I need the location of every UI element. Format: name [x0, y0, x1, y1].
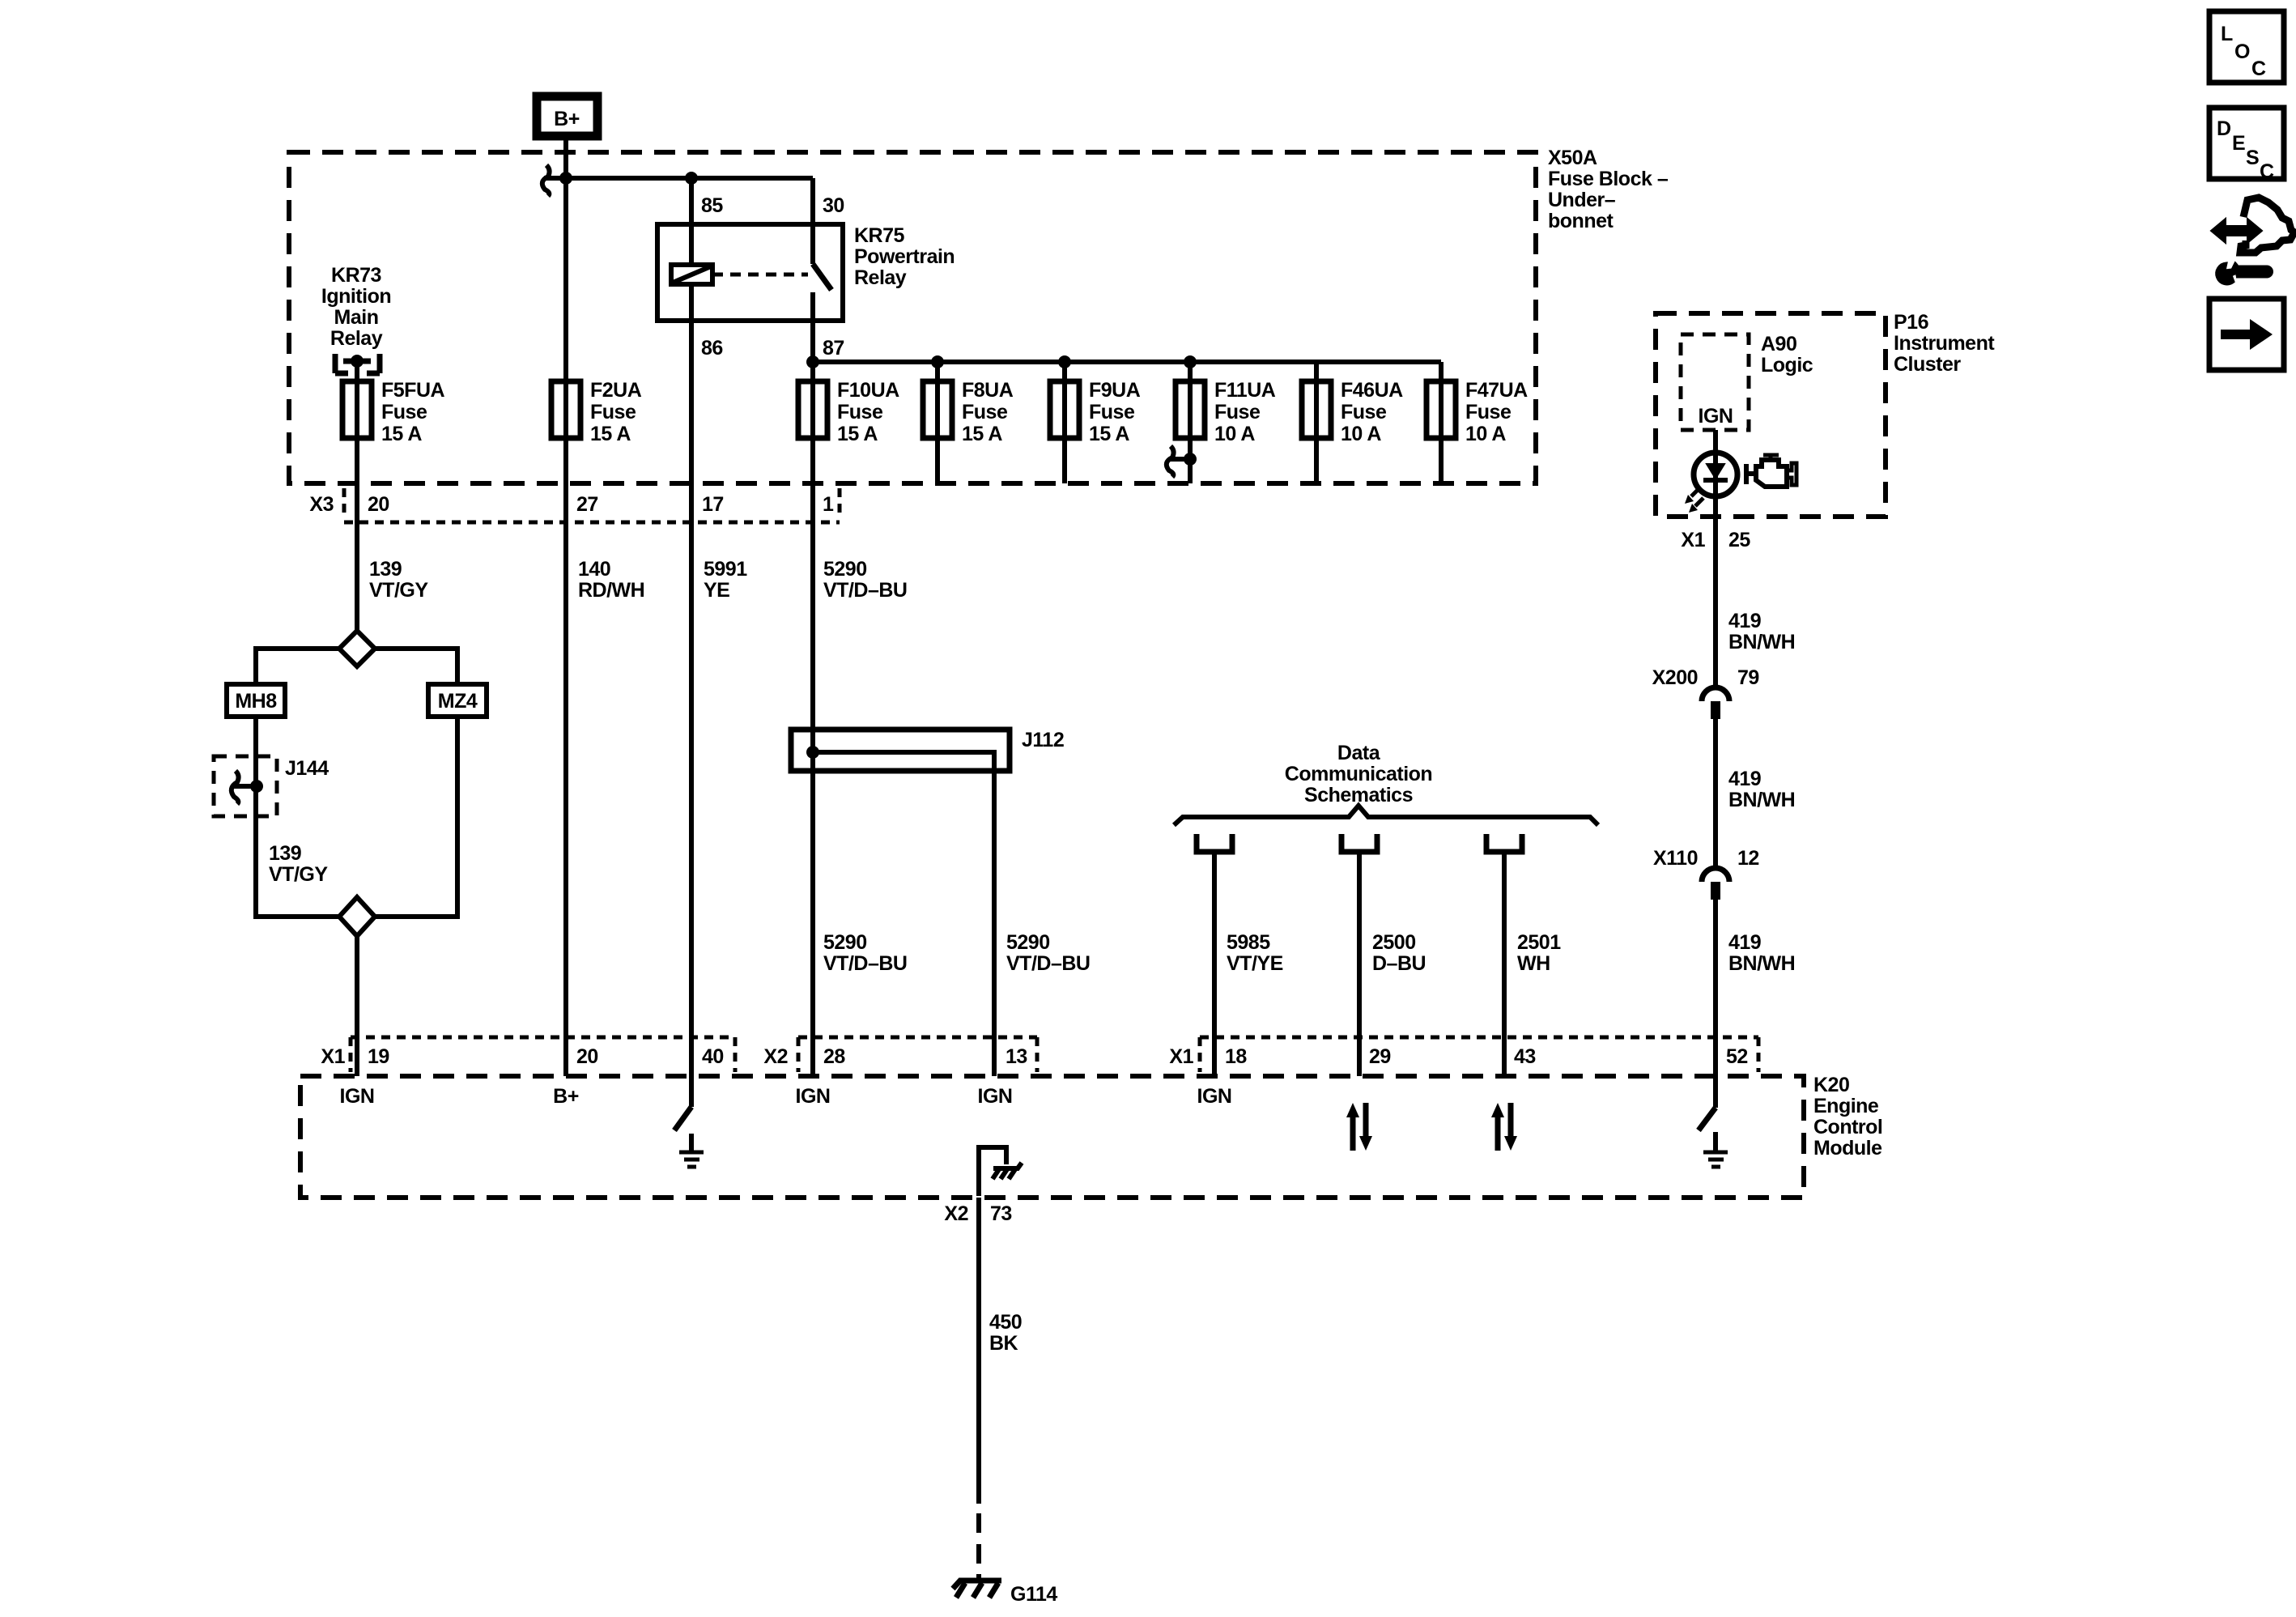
junction node bus at F8UA: [931, 355, 944, 368]
wire KR73 to fuse F5FUA (139 trunk): [355, 361, 359, 631]
svg-text:29: 29: [1369, 1045, 1391, 1068]
junction node bus at F11UA: [1184, 355, 1197, 368]
KR75 pin 30 wire: [810, 178, 815, 264]
fuse F46UA: [1302, 381, 1331, 438]
connector MZ4: [428, 684, 487, 717]
svg-text:Relay: Relay: [330, 327, 383, 350]
label 419 BN/WH (1): [1728, 610, 1795, 653]
svg-text:X110: X110: [1653, 847, 1698, 870]
svg-text:Fuse: Fuse: [381, 401, 427, 423]
svg-text:139: 139: [269, 842, 301, 865]
junction node at relay pin 85 branch: [685, 172, 698, 185]
svg-text:YE: YE: [704, 579, 729, 602]
svg-text:Fuse Block –: Fuse Block –: [1548, 168, 1669, 190]
wire diamond to ECM pin 19: [355, 936, 359, 1076]
svg-text:WH: WH: [1517, 952, 1550, 975]
fuse F5FUA: [342, 381, 372, 438]
splice J144 dashed box: [214, 756, 277, 816]
svg-text:15 A: 15 A: [1089, 423, 1129, 445]
label 419 BN/WH (3): [1728, 931, 1795, 975]
svg-text:BK: BK: [989, 1332, 1018, 1355]
data arrows at pin 29: [1346, 1103, 1372, 1151]
wire 2501 WH: [1502, 852, 1507, 1076]
svg-text:S: S: [2246, 147, 2259, 169]
wire diamond to MZ4: [375, 649, 457, 684]
junction block J112: [791, 730, 1010, 771]
svg-text:C: C: [2251, 57, 2266, 80]
svg-text:X2: X2: [944, 1202, 968, 1225]
fuse F9UA: [1050, 381, 1079, 438]
icon vehicle with wrench: [2211, 198, 2294, 284]
fuse F8UA: [923, 381, 952, 438]
svg-text:2501: 2501: [1517, 931, 1561, 954]
svg-text:J112: J112: [1022, 729, 1064, 751]
KR73 contact cup symbol: [335, 354, 380, 373]
svg-text:MH8: MH8: [235, 690, 277, 713]
svg-text:IGN: IGN: [796, 1085, 831, 1108]
wire F46UA drop: [1314, 362, 1319, 483]
instrument cluster P16 dashed box: [1656, 313, 1886, 517]
svg-text:5985: 5985: [1227, 931, 1270, 954]
label Data Communication Schematics: [1285, 742, 1432, 806]
svg-text:RD/WH: RD/WH: [578, 579, 644, 602]
svg-text:O: O: [2234, 40, 2250, 63]
ground symbol at pin 52: [1703, 1132, 1728, 1167]
svg-text:Fuse: Fuse: [1214, 401, 1261, 423]
ground symbol at pin 40: [679, 1134, 704, 1167]
svg-text:MZ4: MZ4: [438, 690, 478, 713]
svg-text:79: 79: [1737, 666, 1759, 689]
svg-text:5290: 5290: [823, 558, 867, 581]
svg-text:BN/WH: BN/WH: [1728, 631, 1795, 653]
svg-text:Fuse: Fuse: [837, 401, 883, 423]
engine icon: [1746, 455, 1796, 487]
svg-text:25: 25: [1728, 529, 1750, 551]
logic module A90 dashed box: [1681, 334, 1749, 430]
svg-text:D–BU: D–BU: [1372, 952, 1426, 975]
svg-text:15 A: 15 A: [590, 423, 631, 445]
label 5290 VT/D-BU left: [823, 931, 907, 975]
svg-text:VT/D–BU: VT/D–BU: [823, 579, 907, 602]
fuse F11UA: [1176, 381, 1205, 438]
svg-text:F9UA: F9UA: [1089, 379, 1141, 402]
svg-text:VT/D–BU: VT/D–BU: [823, 952, 907, 975]
svg-text:43: 43: [1514, 1045, 1536, 1068]
LED indicator lamp: [1694, 453, 1737, 496]
svg-text:Main: Main: [334, 306, 379, 329]
icon LOC box: [2209, 11, 2284, 83]
ground G114 chassis symbol: [953, 1581, 1001, 1598]
label 419 BN/WH (2): [1728, 768, 1795, 811]
svg-text:F8UA: F8UA: [962, 379, 1014, 402]
svg-text:5290: 5290: [1006, 931, 1050, 954]
svg-text:85: 85: [701, 194, 723, 217]
svg-text:F11UA: F11UA: [1214, 379, 1276, 402]
connector X3 band: [309, 488, 840, 522]
connector X2 pin 73 labels: [944, 1202, 1011, 1225]
svg-text:X2: X2: [763, 1045, 788, 1068]
label 5290 VT/D-BU right: [1006, 931, 1090, 975]
svg-text:C: C: [2260, 160, 2274, 183]
wire internal ground jumper at X2 73: [979, 1147, 1006, 1196]
svg-text:419: 419: [1728, 610, 1761, 632]
svg-text:X1: X1: [1169, 1045, 1193, 1068]
wire F9UA drop: [1062, 362, 1067, 483]
junction node bus at F10UA: [806, 355, 819, 368]
wire F10UA / 5290 trunk: [810, 362, 815, 1076]
KR75 switch blade: [813, 264, 831, 290]
svg-text:73: 73: [990, 1202, 1012, 1225]
label X50A Fuse Block - Underbonnet: [1548, 147, 1669, 232]
wire 419 BN/WH mid: [1713, 719, 1718, 868]
wire KR75 86 to pin 40 (5991 trunk): [689, 284, 694, 1076]
svg-text:15 A: 15 A: [837, 423, 878, 445]
svg-text:Logic: Logic: [1761, 354, 1813, 377]
off-page connector for wire 5985: [1197, 834, 1232, 852]
icon arrow box: [2209, 299, 2284, 370]
wire 2500 D-BU: [1357, 852, 1362, 1076]
svg-text:IGN: IGN: [1197, 1085, 1232, 1108]
fuse F10UA: [798, 381, 827, 438]
label 5985 VT/YE: [1227, 931, 1283, 975]
off-page connector for wire 2500: [1341, 834, 1377, 852]
svg-text:B+: B+: [553, 1085, 579, 1108]
svg-text:X200: X200: [1652, 666, 1698, 689]
label A90 Logic: [1761, 333, 1813, 377]
svg-text:450: 450: [989, 1311, 1022, 1334]
relay KR75 box: [657, 224, 843, 321]
splice diamond lower: [339, 897, 375, 936]
wire 5985 VT/YE: [1212, 852, 1217, 1076]
svg-text:20: 20: [576, 1045, 598, 1068]
svg-text:40: 40: [702, 1045, 724, 1068]
svg-text:Powertrain: Powertrain: [854, 245, 955, 268]
svg-text:10 A: 10 A: [1341, 423, 1381, 445]
svg-text:bonnet: bonnet: [1548, 210, 1614, 232]
wire fuse bus 87: [813, 360, 1441, 364]
svg-text:10 A: 10 A: [1465, 423, 1506, 445]
label 5290 VT/D-BU upper: [823, 558, 907, 602]
svg-text:VT/YE: VT/YE: [1227, 952, 1283, 975]
label F9UA Fuse 15 A: [1089, 379, 1141, 445]
wire MH8 branch down: [256, 717, 339, 917]
svg-text:18: 18: [1225, 1045, 1247, 1068]
switch to ground at pin 40: [674, 1076, 691, 1130]
svg-text:Data: Data: [1337, 742, 1381, 764]
wire B+ feed (140 RD/WH trunk): [563, 136, 568, 1076]
svg-text:10 A: 10 A: [1214, 423, 1255, 445]
wire diamond to MH8: [256, 649, 339, 684]
connector X1 band (pins 18 29 43 52): [1169, 1037, 1758, 1072]
svg-text:D: D: [2217, 117, 2231, 140]
label 5991 YE: [704, 558, 747, 602]
KR75 coil-contact dashed link: [712, 273, 808, 277]
svg-text:30: 30: [823, 194, 844, 217]
KR75 pin 87 stub: [810, 292, 815, 362]
svg-text:Module: Module: [1813, 1137, 1882, 1160]
data arrows at pin 43: [1491, 1103, 1517, 1151]
svg-text:L: L: [2221, 23, 2233, 45]
svg-text:K20: K20: [1813, 1074, 1849, 1096]
svg-text:Fuse: Fuse: [962, 401, 1008, 423]
svg-text:X3: X3: [309, 493, 334, 516]
svg-text:Under–: Under–: [1548, 189, 1616, 211]
fuse F2UA: [551, 381, 580, 438]
wire 450 BK dashed tail: [976, 1513, 981, 1580]
label 139 VT/GY lower: [269, 842, 328, 886]
label F8UA Fuse 15 A: [962, 379, 1014, 445]
label KR73 Ignition Main Relay: [321, 264, 391, 350]
wire F11UA drop: [1188, 362, 1193, 483]
off-page connector for wire 2501: [1486, 834, 1522, 852]
clip splice inside J144: [232, 771, 263, 804]
svg-text:IGN: IGN: [978, 1085, 1013, 1108]
wire MZ4 branch down: [375, 717, 457, 917]
svg-text:Instrument: Instrument: [1894, 332, 1995, 355]
svg-text:VT/GY: VT/GY: [269, 863, 328, 886]
junction node bus at F9UA: [1058, 355, 1071, 368]
svg-text:X1: X1: [1681, 529, 1705, 551]
svg-text:5290: 5290: [823, 931, 867, 954]
svg-text:15 A: 15 A: [381, 423, 422, 445]
svg-text:BN/WH: BN/WH: [1728, 952, 1795, 975]
svg-text:1: 1: [823, 493, 834, 516]
label F5FUA Fuse 15 A: [381, 379, 445, 445]
svg-text:140: 140: [578, 558, 610, 581]
inline connector X110 pin 12: [1653, 847, 1759, 900]
wire 419 BN/WH lower: [1713, 900, 1718, 1076]
label 2501 WH: [1517, 931, 1561, 975]
svg-text:F5FUA: F5FUA: [381, 379, 445, 402]
svg-text:87: 87: [823, 337, 844, 360]
chassis ground symbol inside ECM: [993, 1163, 1022, 1179]
svg-text:VT/D–BU: VT/D–BU: [1006, 952, 1090, 975]
label 2500 D-BU: [1372, 931, 1426, 975]
svg-text:2500: 2500: [1372, 931, 1416, 954]
label 139 VT/GY upper: [369, 558, 428, 602]
brace over data wires: [1174, 806, 1598, 825]
power symbol B+: [537, 96, 597, 136]
svg-text:IGN: IGN: [1699, 405, 1733, 428]
connector X1 pin 25 labels: [1681, 529, 1750, 551]
svg-text:VT/GY: VT/GY: [369, 579, 428, 602]
icon DESC box: [2209, 108, 2284, 183]
junction node at B+ wire: [559, 172, 572, 185]
svg-text:G114: G114: [1010, 1583, 1057, 1606]
ECM K20 dashed box: [300, 1076, 1804, 1198]
svg-text:X50A: X50A: [1548, 147, 1597, 169]
clip splice at B+ node: [542, 165, 566, 196]
wire 450 BK: [976, 1198, 981, 1504]
svg-text:A90: A90: [1761, 333, 1796, 355]
svg-text:X1: X1: [321, 1045, 345, 1068]
label F2UA Fuse 15 A: [590, 379, 642, 445]
fuse block X50A dashed box: [289, 152, 1536, 483]
svg-text:E: E: [2232, 132, 2245, 155]
inline connector X200 pin 79: [1652, 666, 1759, 719]
svg-text:IGN: IGN: [340, 1085, 375, 1108]
svg-text:F46UA: F46UA: [1341, 379, 1403, 402]
svg-text:P16: P16: [1894, 311, 1928, 334]
svg-text:27: 27: [576, 493, 598, 516]
connector MH8: [227, 684, 285, 717]
svg-text:Fuse: Fuse: [1341, 401, 1387, 423]
svg-text:12: 12: [1737, 847, 1759, 870]
svg-text:17: 17: [702, 493, 724, 516]
label F10UA Fuse 15 A: [837, 379, 899, 445]
label F11UA Fuse 10 A: [1214, 379, 1276, 445]
svg-text:13: 13: [1006, 1045, 1027, 1068]
label P16 Instrument Cluster: [1894, 311, 1995, 376]
svg-text:15 A: 15 A: [962, 423, 1002, 445]
svg-text:419: 419: [1728, 768, 1761, 790]
wire F47UA drop: [1439, 362, 1444, 483]
svg-text:Cluster: Cluster: [1894, 353, 1961, 376]
splice diamond upper: [339, 631, 375, 666]
label 140 RD/WH: [578, 558, 644, 602]
svg-text:KR75: KR75: [854, 224, 905, 247]
label KR75 Powertrain Relay: [854, 224, 955, 289]
label F47UA Fuse 10 A: [1465, 379, 1528, 445]
wire A90 to LED: [1713, 430, 1718, 687]
svg-text:F2UA: F2UA: [590, 379, 642, 402]
svg-text:52: 52: [1726, 1045, 1748, 1068]
svg-text:KR73: KR73: [331, 264, 381, 287]
svg-text:28: 28: [823, 1045, 845, 1068]
fuse F47UA: [1426, 381, 1456, 438]
wire J112 branch to pin 13: [813, 752, 994, 1076]
svg-text:BN/WH: BN/WH: [1728, 789, 1795, 811]
svg-text:Ignition: Ignition: [321, 285, 391, 308]
svg-text:F47UA: F47UA: [1465, 379, 1528, 402]
svg-text:139: 139: [369, 558, 402, 581]
svg-text:J144: J144: [285, 757, 329, 780]
svg-text:19: 19: [368, 1045, 389, 1068]
svg-text:5991: 5991: [704, 558, 747, 581]
switch to ground at pin 52: [1699, 1076, 1716, 1130]
svg-text:Control: Control: [1813, 1116, 1882, 1138]
svg-text:86: 86: [701, 337, 723, 360]
LED emission arrows: [1685, 488, 1703, 513]
clip splice below F11UA: [1167, 446, 1197, 477]
connector X1 band (pins 19 20 40): [321, 1037, 735, 1072]
svg-text:Fuse: Fuse: [1465, 401, 1512, 423]
wire top distribution bus: [544, 176, 813, 181]
svg-text:20: 20: [368, 493, 389, 516]
label K20 Engine Control Module: [1813, 1074, 1882, 1160]
svg-text:B+: B+: [554, 108, 580, 130]
junction node in J112: [806, 746, 819, 759]
KR75 coil: [671, 265, 712, 284]
wire F8UA drop: [935, 362, 940, 483]
KR75 pin 85 wire: [689, 178, 694, 265]
label F46UA Fuse 10 A: [1341, 379, 1403, 445]
svg-text:Engine: Engine: [1813, 1095, 1879, 1117]
svg-text:F10UA: F10UA: [837, 379, 899, 402]
svg-text:Fuse: Fuse: [590, 401, 636, 423]
svg-text:Communication: Communication: [1285, 763, 1432, 785]
label 450 BK: [989, 1311, 1022, 1355]
svg-text:Relay: Relay: [854, 266, 907, 289]
svg-text:Fuse: Fuse: [1089, 401, 1135, 423]
connector X2 band (pins 28 13): [763, 1037, 1037, 1072]
svg-text:419: 419: [1728, 931, 1761, 954]
